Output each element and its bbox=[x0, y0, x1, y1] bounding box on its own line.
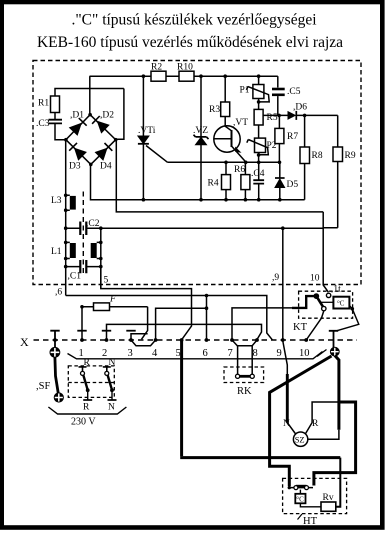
resistor R2 bbox=[151, 63, 166, 82]
fuse F bbox=[80, 295, 147, 311]
wire fuse drop to T3/T4 bbox=[142, 307, 148, 340]
junction dots bus A bbox=[142, 198, 282, 202]
svg-text:R8: R8 bbox=[312, 151, 323, 161]
wire T3 bus bbox=[131, 334, 148, 340]
svg-text:,9: ,9 bbox=[272, 273, 279, 283]
capacitor C1 bbox=[64, 260, 103, 282]
svg-text:,C1: ,C1 bbox=[68, 272, 82, 282]
KT bottom contact bbox=[322, 306, 326, 310]
SF thick drop bbox=[55, 357, 58, 393]
heater Rv bbox=[321, 493, 336, 511]
svg-text:6: 6 bbox=[203, 348, 208, 359]
thick diagonal earth to HT column bbox=[270, 356, 332, 458]
svg-text:°C: °C bbox=[337, 300, 345, 308]
thick drop from earth right bbox=[335, 356, 339, 430]
svg-text:4: 4 bbox=[152, 348, 158, 359]
wire bus A bbox=[91, 164, 305, 200]
KT blade drop to T10 bbox=[306, 311, 324, 340]
earth terminal left bbox=[50, 347, 60, 357]
HT dashed box bbox=[283, 478, 347, 513]
inductor L3 bbox=[51, 194, 76, 213]
wire bus B jog to R9 bbox=[323, 212, 338, 228]
wire box-5 exit bbox=[101, 267, 192, 340]
SF switch pole R bbox=[79, 367, 93, 400]
wire T7 to KT elbow bbox=[232, 308, 292, 340]
svg-text:10: 10 bbox=[310, 274, 320, 284]
svg-text:KT: KT bbox=[293, 322, 308, 333]
resistor R10 bbox=[177, 63, 194, 82]
KT moving blade bbox=[316, 296, 323, 308]
svg-text:D4: D4 bbox=[100, 162, 112, 172]
drop to Rv right bbox=[336, 458, 341, 507]
svg-text:."C" típusú készülékek vezérlő: ."C" típusú készülékek vezérlőegységei bbox=[71, 12, 317, 29]
svg-text:R4: R4 bbox=[208, 179, 219, 189]
bridge corner dots bbox=[64, 113, 117, 166]
plug symbol left bbox=[50, 331, 59, 347]
svg-text:SZ: SZ bbox=[295, 435, 305, 445]
svg-text:°C: °C bbox=[296, 496, 304, 504]
svg-text:X: X bbox=[20, 335, 29, 349]
svg-text:.C3: .C3 bbox=[36, 119, 50, 129]
diode D3 bbox=[69, 143, 86, 172]
wire T4-T6 link bbox=[156, 308, 207, 340]
svg-text:D3: D3 bbox=[69, 162, 81, 172]
svg-text:R7: R7 bbox=[287, 132, 298, 142]
resistor R7 bbox=[275, 115, 298, 162]
potentiometer P2 bbox=[247, 125, 277, 162]
capacitor C2 bbox=[64, 219, 103, 235]
thick heater loop right bbox=[314, 402, 356, 486]
svg-text:KEB-160 típusú vezérlés működé: KEB-160 típusú vezérlés működésének elvi… bbox=[37, 34, 343, 51]
control unit dashed box bbox=[33, 61, 361, 285]
svg-text:R3: R3 bbox=[209, 105, 220, 115]
plug symbol right bbox=[329, 331, 338, 348]
svg-text:.C4: .C4 bbox=[251, 169, 265, 179]
svg-text:R2: R2 bbox=[151, 63, 162, 73]
KT right wire to plug bbox=[337, 306, 359, 331]
svg-text:F: F bbox=[109, 295, 116, 305]
wire R3 riser bbox=[224, 76, 226, 102]
motor SZ bbox=[293, 432, 307, 446]
junction dots gate bus bbox=[224, 161, 281, 165]
HT label bbox=[298, 514, 318, 527]
svg-text:3: 3 bbox=[128, 348, 133, 359]
resistor R9 bbox=[333, 115, 356, 227]
zener VZ bbox=[193, 126, 209, 200]
wire bus C bbox=[101, 227, 323, 229]
ferrite core dashed line bbox=[82, 192, 84, 275]
strip underline bbox=[68, 352, 323, 359]
RK wires bbox=[238, 346, 253, 374]
KT pivot elbow wire bbox=[292, 296, 314, 308]
inductor L1 right winding bbox=[91, 241, 103, 261]
230V bracket bbox=[48, 407, 126, 414]
slant tick T10 bbox=[317, 350, 327, 357]
diode bridge frame bbox=[66, 115, 116, 165]
plug symbol T3 bbox=[126, 330, 135, 332]
wire box terminal 9 drop bbox=[282, 228, 284, 340]
svg-text:5: 5 bbox=[104, 276, 109, 286]
wire T6 riser bbox=[206, 296, 208, 340]
svg-text:R1: R1 bbox=[38, 99, 49, 109]
thick T5 drop bbox=[180, 340, 183, 456]
thermostat sensor box HT bbox=[295, 490, 305, 504]
SF dashed box bbox=[68, 366, 114, 398]
svg-text:R10: R10 bbox=[177, 63, 193, 73]
KT sensor link wire bbox=[321, 301, 334, 303]
wire R of SZ bbox=[305, 402, 339, 434]
wire bridge right riser bbox=[116, 89, 124, 140]
svg-text:L1: L1 bbox=[51, 247, 62, 257]
RK dashed box bbox=[224, 367, 264, 383]
plug symbol T1 bbox=[77, 330, 86, 332]
potentiometer P1 bbox=[240, 85, 270, 102]
diode D2 bbox=[92, 111, 114, 133]
diode D6 bbox=[263, 103, 338, 120]
svg-text:,VT: ,VT bbox=[233, 118, 248, 128]
wire VZ riser bbox=[200, 76, 202, 137]
diode D5 bbox=[275, 162, 298, 199]
svg-text:D5: D5 bbox=[287, 180, 299, 190]
resistor R6 bbox=[234, 162, 250, 199]
svg-text:,6: ,6 bbox=[55, 288, 62, 298]
resistor R8 bbox=[300, 115, 323, 199]
wire box-6 exit bbox=[66, 296, 273, 340]
svg-text:N: N bbox=[108, 403, 115, 413]
resistor R3 bbox=[209, 102, 230, 117]
svg-text:L3: L3 bbox=[51, 196, 62, 206]
capacitor C5 bbox=[272, 87, 301, 115]
svg-text:Rv: Rv bbox=[323, 493, 334, 503]
svg-text:.C5: .C5 bbox=[287, 87, 301, 97]
svg-text:.VZ: .VZ bbox=[193, 126, 208, 136]
wire bus B bbox=[116, 140, 323, 212]
svg-text:R6: R6 bbox=[234, 165, 245, 175]
wire T9 to motor N bbox=[283, 341, 288, 376]
SF switch pole N bbox=[103, 367, 117, 400]
KT pivot contact bbox=[314, 294, 319, 299]
resistor R1 bbox=[38, 96, 60, 113]
svg-text:9: 9 bbox=[277, 348, 282, 359]
SF coupling dashed line bbox=[68, 382, 114, 384]
svg-text:,D6: ,D6 bbox=[293, 103, 307, 113]
svg-text:R: R bbox=[83, 403, 90, 413]
terminal numbers bbox=[79, 348, 310, 359]
svg-text:,SF: ,SF bbox=[36, 381, 50, 392]
svg-text:8: 8 bbox=[253, 348, 258, 359]
wire C3 to bridge left bbox=[55, 123, 66, 140]
resistor R5 bbox=[254, 99, 278, 126]
diode D1 bbox=[69, 111, 86, 136]
wire to SZ right loop bbox=[308, 430, 339, 439]
svg-text:,1t: ,1t bbox=[331, 285, 341, 295]
svg-text:HT: HT bbox=[303, 516, 318, 527]
svg-text:R9: R9 bbox=[345, 151, 356, 161]
wire P1 riser bbox=[258, 76, 260, 84]
svg-text:10: 10 bbox=[299, 348, 310, 359]
wire box terminal 10 drop bbox=[323, 228, 328, 292]
svg-text:R5: R5 bbox=[267, 113, 278, 123]
svg-text:2: 2 bbox=[102, 348, 107, 359]
wire N to SZ bbox=[287, 423, 296, 435]
svg-text:RK: RK bbox=[237, 386, 252, 397]
wire left column bbox=[65, 140, 67, 296]
terminal strip X dashed line bbox=[34, 339, 358, 341]
earth terminal SF bottom bbox=[54, 393, 63, 402]
wire L1 right column bbox=[100, 228, 102, 288]
svg-text:R: R bbox=[312, 419, 319, 429]
capacitor C3 bbox=[36, 113, 62, 130]
thick bottom bus bbox=[180, 456, 340, 459]
inductor L1 left winding bbox=[51, 241, 76, 261]
thermostat sensor box KT bbox=[333, 297, 349, 309]
earth terminal right bbox=[330, 347, 339, 356]
svg-text:230 V: 230 V bbox=[71, 417, 96, 428]
diode D4 bbox=[95, 143, 112, 172]
wire rail to C5 bbox=[277, 76, 279, 87]
wire top rail bbox=[90, 75, 278, 77]
transistor VT bbox=[214, 117, 248, 163]
thick jog into HT bbox=[270, 458, 290, 486]
jumper bump T3-T4 bbox=[131, 340, 156, 346]
svg-text:,D1: ,D1 bbox=[70, 111, 84, 121]
thyristor VTi bbox=[138, 126, 168, 200]
wire R1/C3 branch top bbox=[55, 89, 124, 97]
resistor R4 bbox=[208, 162, 231, 199]
svg-text:,D2: ,D2 bbox=[100, 111, 114, 121]
wire gate bus bbox=[168, 161, 280, 163]
svg-text:7: 7 bbox=[228, 348, 233, 359]
KT dashed box bbox=[299, 291, 353, 318]
jumper bump T7-T8 bbox=[232, 340, 257, 346]
wire T2 long bus bbox=[107, 324, 262, 339]
svg-text:,C2: ,C2 bbox=[86, 219, 100, 229]
thermal cutout contacts bbox=[288, 486, 313, 490]
wire T1 riser bbox=[81, 307, 83, 340]
junction dots top rail bbox=[142, 74, 261, 78]
RK element bbox=[236, 374, 255, 378]
junction dots P1 P2 bbox=[257, 100, 307, 157]
wire VTi anode riser bbox=[142, 76, 144, 136]
terminal dots bbox=[53, 338, 308, 342]
plug symbol T2 bbox=[102, 330, 111, 332]
svg-text:5: 5 bbox=[176, 348, 181, 359]
wire bridge top riser bbox=[89, 76, 91, 115]
svg-text:P1: P1 bbox=[240, 86, 250, 96]
svg-text:.VTi: .VTi bbox=[138, 126, 156, 136]
wire sensor to Rv bbox=[300, 503, 321, 507]
capacitor C4 bbox=[251, 162, 265, 199]
KT contact 1t bbox=[326, 293, 330, 297]
